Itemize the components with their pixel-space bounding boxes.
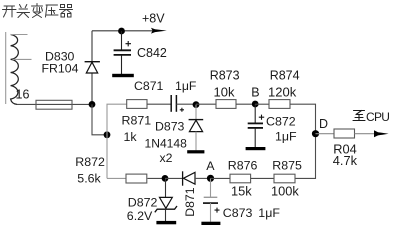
resistor (unlabeled inline filter) <box>36 100 72 109</box>
resistor R873 <box>210 69 240 109</box>
svg-text:1N4148: 1N4148 <box>145 136 188 150</box>
node C871/R873/D873 <box>193 101 200 108</box>
svg-text:C872: C872 <box>266 115 296 129</box>
+8V arrow <box>151 28 167 34</box>
svg-text:D871: D871 <box>183 187 197 217</box>
svg-text:16: 16 <box>16 88 30 102</box>
+8V rail wire <box>92 30 153 32</box>
wire transformer to filter box <box>17 103 92 105</box>
svg-text:10k: 10k <box>214 84 235 99</box>
diode D871 <box>183 171 198 217</box>
node A <box>207 175 214 182</box>
resistor R876 <box>228 158 258 198</box>
svg-text:x2: x2 <box>160 151 173 165</box>
wire R871 to C871 <box>147 103 171 105</box>
capacitor C871 <box>134 79 197 112</box>
wire D871 to node A <box>195 177 211 179</box>
svg-text:R871: R871 <box>122 114 152 128</box>
ground (C872) <box>246 147 266 150</box>
svg-text:120k: 120k <box>268 84 297 99</box>
svg-text:5.6k: 5.6k <box>77 171 101 185</box>
wire vertical riser to R871/R872 <box>107 104 127 178</box>
node B <box>252 101 259 108</box>
wire R872 to D872 node <box>148 177 166 179</box>
svg-text:15k: 15k <box>231 184 252 199</box>
zener diode D872 6.2V <box>127 178 177 223</box>
wire R874 right to corner and down to node D and bottom corner <box>290 104 316 178</box>
wire D872 node to D871 <box>165 177 183 179</box>
svg-text:C871: C871 <box>134 79 164 93</box>
svg-text:R873: R873 <box>210 69 240 83</box>
wire R873 to node B <box>236 103 255 105</box>
svg-text:R872: R872 <box>75 155 105 169</box>
node D830 anode on transformer wire <box>89 101 96 108</box>
wire node D to R04 <box>316 133 335 135</box>
arrow to CPU <box>374 130 389 137</box>
ground (C873) <box>201 222 220 225</box>
resistor R871 <box>122 100 152 145</box>
svg-text:1k: 1k <box>124 130 138 144</box>
svg-text:R874: R874 <box>270 69 300 83</box>
label 至CPU <box>353 110 389 124</box>
svg-text:R875: R875 <box>272 158 302 172</box>
svg-text:+8V: +8V <box>142 12 165 26</box>
capacitor C873 <box>203 178 280 222</box>
svg-text:R876: R876 <box>228 158 258 172</box>
svg-text:A: A <box>206 159 215 173</box>
wire C871 to node <box>176 103 196 105</box>
resistor R875 <box>271 158 302 198</box>
svg-text:D: D <box>319 117 328 131</box>
svg-text:C842: C842 <box>137 46 167 60</box>
node jog junction <box>104 131 111 138</box>
ground (D873) <box>187 150 204 153</box>
transformer winding (primary of switch transformer) <box>6 32 32 104</box>
resistor R872 <box>75 155 147 185</box>
title label 开关变压器 <box>3 4 73 18</box>
ground (D872) <box>156 221 176 224</box>
ground (C842) <box>112 74 134 77</box>
svg-text:CPU: CPU <box>366 110 389 124</box>
wire R04 to arrow <box>355 133 375 135</box>
resistor R04 <box>333 129 358 168</box>
svg-text:C873: C873 <box>223 206 253 220</box>
svg-text:D873: D873 <box>155 119 185 133</box>
wire node to R873 <box>196 103 216 105</box>
svg-text:B: B <box>251 85 259 99</box>
node D <box>312 130 319 137</box>
node D872 junction <box>162 175 169 182</box>
svg-text:6.2V: 6.2V <box>127 209 153 223</box>
diode D873 1N4148 x2 <box>145 105 204 165</box>
svg-text:FR104: FR104 <box>42 62 79 76</box>
svg-text:1μF: 1μF <box>258 206 280 220</box>
capacitor C872 <box>248 104 297 147</box>
svg-text:D872: D872 <box>128 196 158 210</box>
resistor R874 <box>268 69 300 109</box>
svg-text:4.7k: 4.7k <box>333 153 358 168</box>
node rail/C842 junction <box>118 28 125 35</box>
svg-text:1μF: 1μF <box>275 130 297 144</box>
wire node B to R874 <box>255 103 269 105</box>
wire jog from D830 node down-right <box>92 104 107 134</box>
svg-text:1μF: 1μF <box>175 79 197 93</box>
wire R876 to R875 <box>251 177 274 179</box>
wire riser to R872 <box>107 177 126 179</box>
svg-text:100k: 100k <box>271 184 299 199</box>
diode D830 FR104 <box>42 31 100 105</box>
capacitor C842 <box>114 31 167 74</box>
wire node A to R876 <box>211 177 231 179</box>
